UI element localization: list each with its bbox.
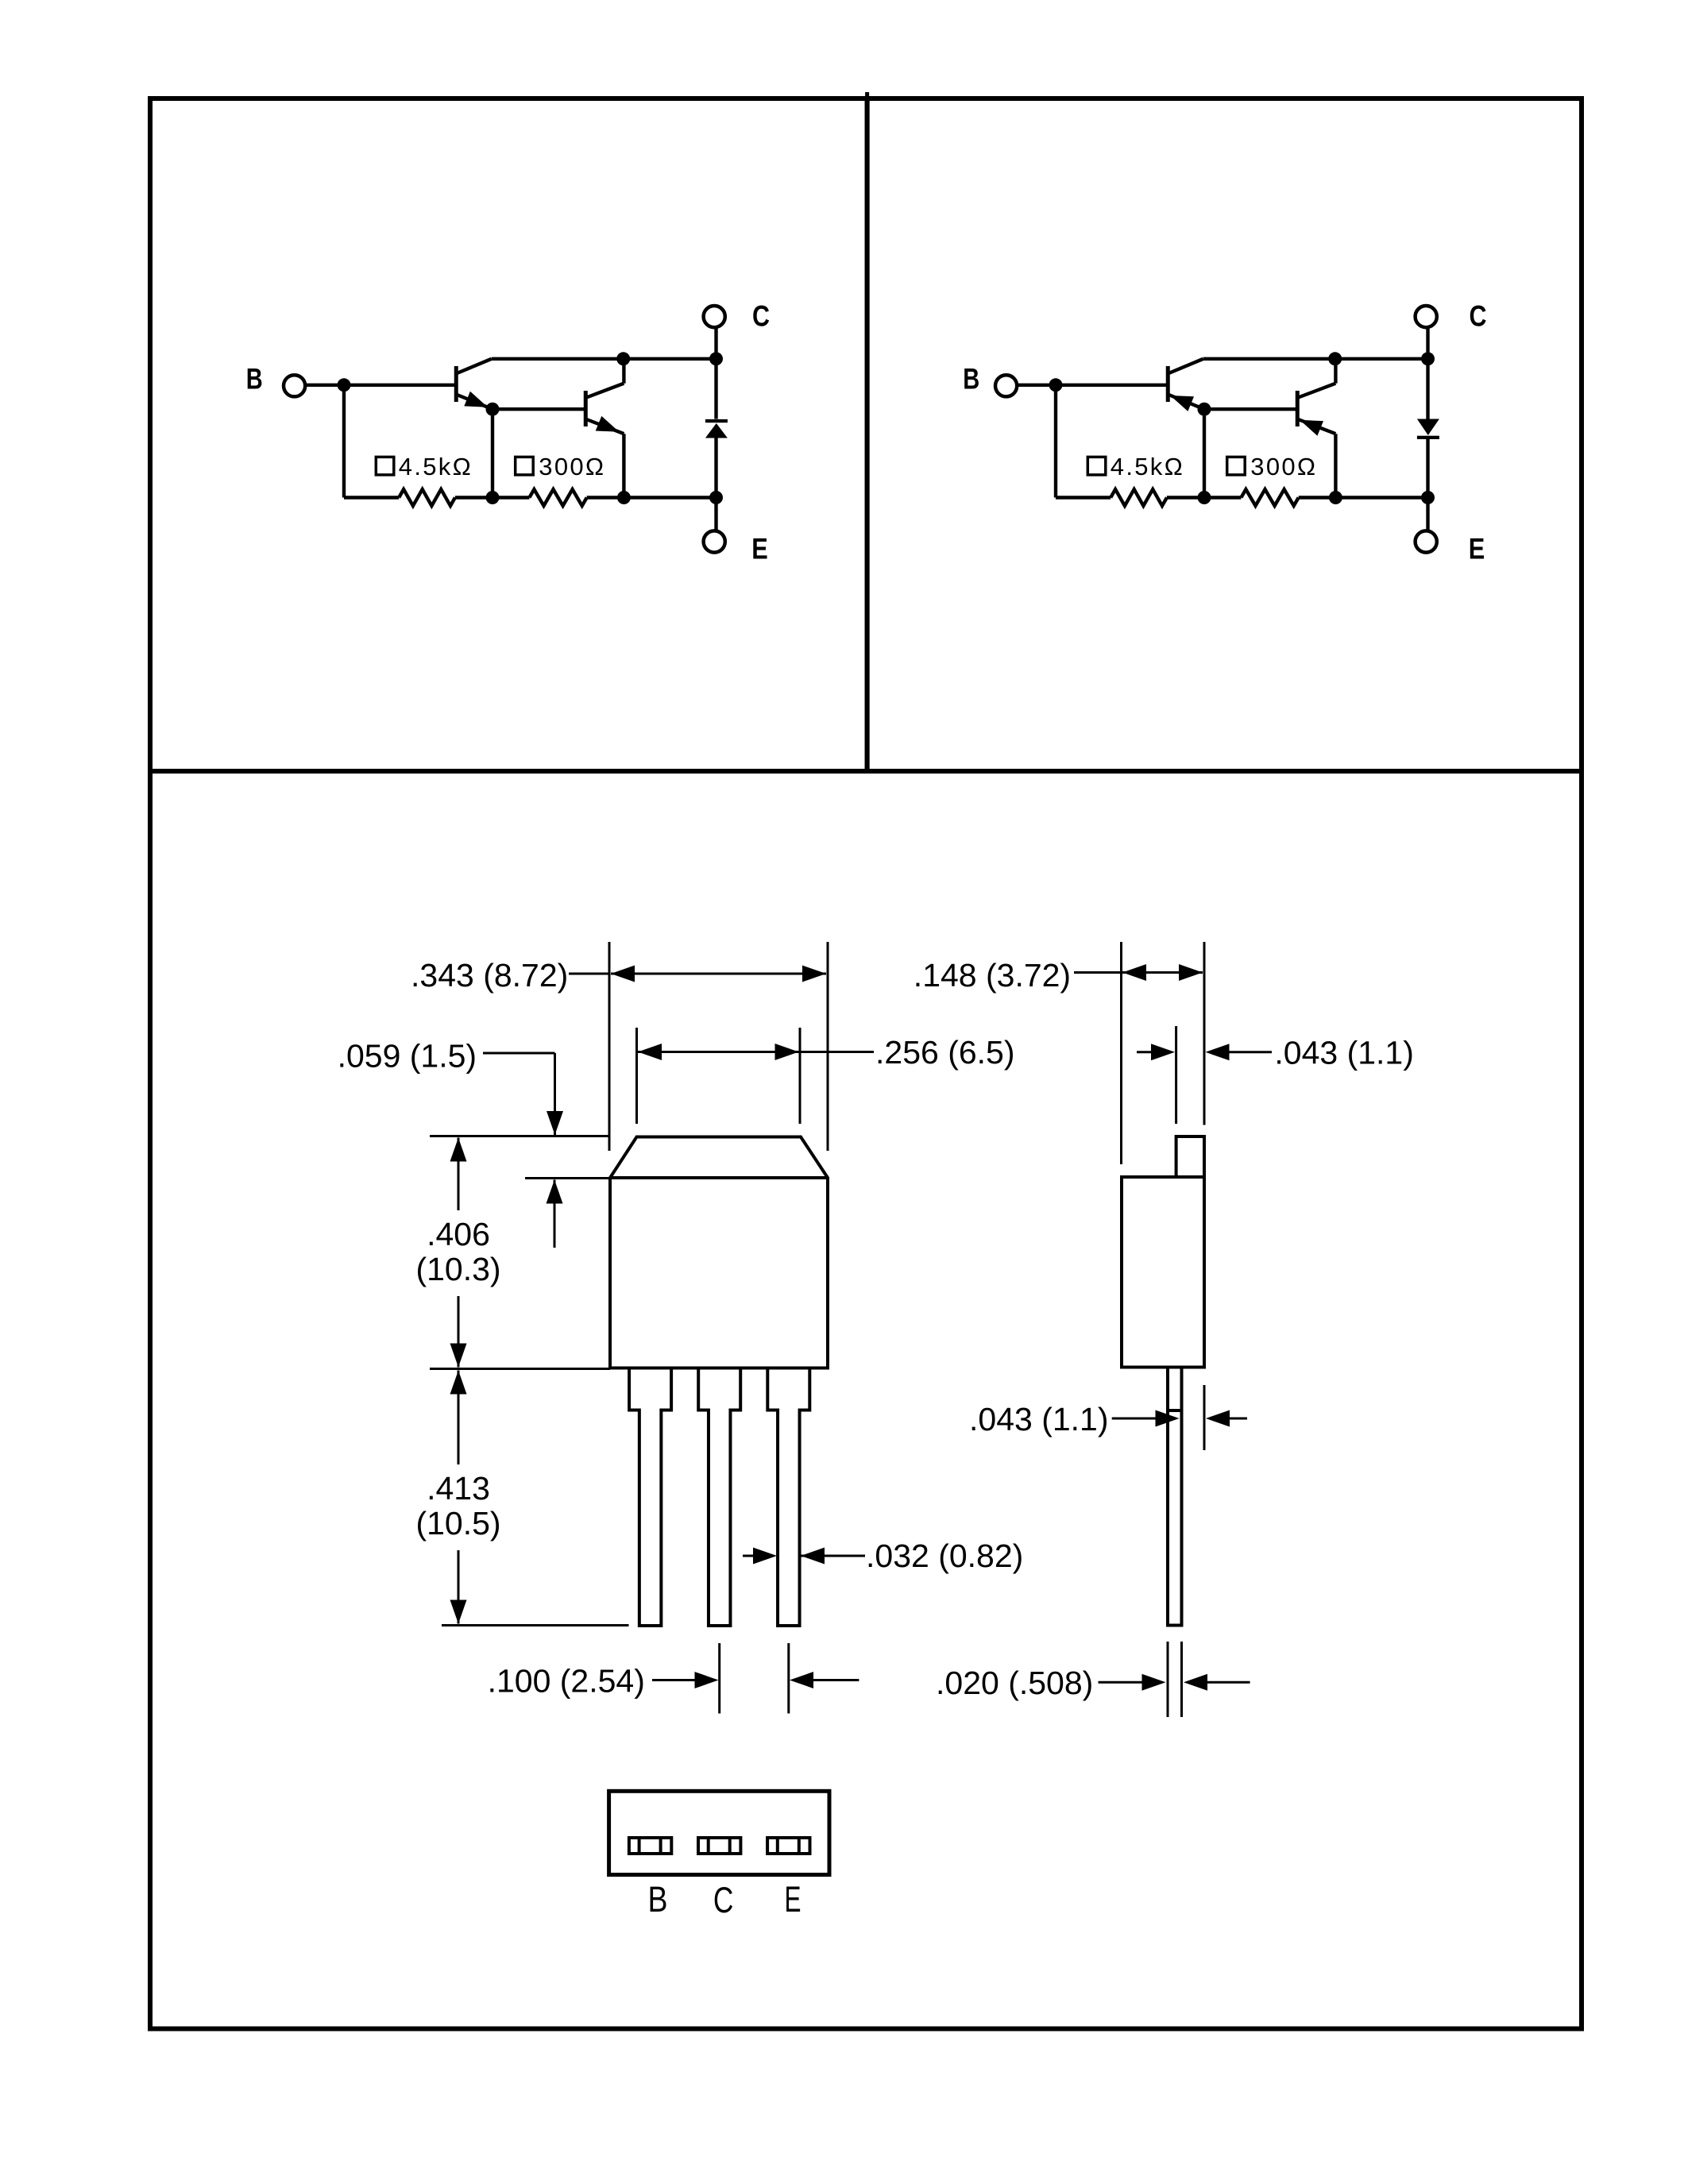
dimension .406 (10.3) body height — [415, 1138, 500, 1368]
dimension .100 (2.54) lead pitch — [488, 1663, 859, 1700]
wire to base of Q2 — [492, 407, 584, 411]
value label R1 4.5kOhm — [376, 457, 394, 475]
extension line body top left — [430, 1135, 610, 1137]
transistor Q1 — [456, 359, 492, 409]
extension line lead right — [1180, 1642, 1183, 1717]
junction node emitter of Q3 — [1198, 403, 1211, 416]
junction bottom rail - E line — [709, 491, 723, 504]
svg-text:C: C — [1470, 300, 1487, 333]
package lead 3 front view — [767, 1368, 809, 1626]
wire bottom rail segment — [1056, 496, 1111, 499]
wire B to base of Q3 — [1017, 384, 1166, 387]
svg-text:C: C — [713, 1880, 734, 1920]
value label R2 300Ohm — [516, 457, 534, 475]
junction collector of Q2 — [616, 352, 630, 365]
dimension .032 (0.82) lead width — [743, 1538, 1023, 1574]
extension line lead2 center — [718, 1643, 720, 1714]
dimension .413 (10.5) lead length — [415, 1371, 500, 1624]
resistor R1 4.5kΩ zigzag — [399, 489, 455, 506]
junction R3-R4 — [1198, 491, 1211, 504]
resistor R2 300Ω zigzag — [529, 489, 586, 506]
package front view body outline — [610, 1137, 828, 1368]
svg-text:.043 (1.1): .043 (1.1) — [969, 1401, 1109, 1437]
extension line shoulder left — [525, 1177, 610, 1179]
svg-text:E: E — [1469, 533, 1485, 565]
svg-text:C: C — [752, 300, 770, 333]
junction node emitter of Q1 — [486, 403, 500, 416]
junction R2-emitter — [617, 491, 631, 504]
svg-text:B: B — [648, 1879, 668, 1920]
wire diode to E terminal — [714, 438, 717, 531]
svg-text:300Ω: 300Ω — [1250, 453, 1317, 480]
resistor R3 4.5kΩ zigzag — [1111, 489, 1167, 506]
dimension .020 (.508) lead thickness — [936, 1665, 1250, 1701]
wire bottom rail segment — [344, 496, 399, 499]
extension line body right — [827, 942, 829, 1151]
wire bottom rail segment — [1299, 496, 1428, 499]
package bottom view pin slot 1 — [629, 1838, 671, 1854]
svg-text:4.5kΩ: 4.5kΩ — [399, 453, 473, 480]
wire node down to bottom rail — [491, 409, 494, 497]
dimension .043 (1.1) tab width — [1137, 1035, 1414, 1071]
extension line body bottom left — [430, 1368, 610, 1370]
wire B to base of Q1 — [305, 384, 454, 387]
value label R3 4.5kOhm — [1087, 457, 1106, 475]
package bottom view pin slot 2 — [698, 1838, 740, 1854]
svg-text:.020 (.508): .020 (.508) — [936, 1665, 1093, 1701]
wire collector rail of Q3 — [1203, 357, 1428, 361]
svg-text:.148 (3.72): .148 (3.72) — [914, 957, 1071, 994]
diode D1 — [705, 419, 728, 438]
resistor R4 300Ω zigzag — [1241, 489, 1298, 506]
svg-text:.256 (6.5): .256 (6.5) — [875, 1034, 1015, 1071]
package lead 2 front view — [698, 1368, 740, 1626]
extension line body left — [608, 942, 611, 1151]
node B terminal circle — [284, 375, 305, 396]
svg-text:E: E — [751, 533, 768, 565]
wire emitter of Q2 to bottom rail — [622, 434, 625, 497]
wire bottom rail segment — [455, 496, 530, 499]
svg-text:.032 (0.82): .032 (0.82) — [866, 1538, 1023, 1574]
dimension .148 (3.72) side body width — [914, 957, 1203, 994]
svg-text:B: B — [246, 363, 263, 396]
package bottom view pin slot 3 — [767, 1838, 809, 1854]
node C terminal circle — [704, 306, 725, 327]
node E terminal circle — [704, 531, 725, 552]
NPN Darlington schematic (left box) — [246, 300, 770, 565]
junction rail - C line — [1421, 352, 1435, 365]
wire diode to E terminal — [1426, 438, 1429, 531]
junction node B — [338, 378, 351, 392]
package side view body outline — [1122, 1177, 1204, 1368]
wire to base of Q4 — [1204, 407, 1296, 411]
wire collector of Q2 to rail — [622, 359, 625, 384]
transistor Q3 — [1168, 359, 1204, 411]
svg-text:.059 (1.5): .059 (1.5) — [338, 1038, 477, 1075]
svg-text:.100 (2.54): .100 (2.54) — [488, 1663, 645, 1700]
wire collector of Q4 to rail — [1334, 359, 1337, 384]
extension line side body left — [1120, 942, 1122, 1164]
extension line lead bottom — [442, 1624, 629, 1626]
extension line lead3 center — [787, 1643, 790, 1714]
wire node B down to bottom rail — [342, 385, 346, 498]
svg-text:(10.3): (10.3) — [415, 1251, 500, 1287]
svg-text:E: E — [785, 1879, 802, 1920]
wire bottom rail segment — [587, 496, 717, 499]
svg-text:(10.5): (10.5) — [415, 1505, 500, 1542]
extension line tab left — [1175, 1026, 1177, 1124]
wire emitter of Q4 to bottom rail — [1334, 434, 1337, 497]
extension line lead left — [1167, 1642, 1169, 1717]
transistor Q4 — [1297, 384, 1335, 436]
junction bottom rail - E line — [1421, 491, 1435, 504]
extension line side body right — [1203, 942, 1206, 1125]
diode D2 — [1417, 419, 1439, 440]
svg-text:4.5kΩ: 4.5kΩ — [1111, 453, 1184, 480]
junction rail - C line — [709, 352, 723, 365]
node B terminal circle — [995, 375, 1017, 396]
dimension .343 (8.72) body width — [411, 957, 826, 994]
wire node down to bottom rail — [1203, 409, 1206, 497]
extension line chamfer left — [635, 1028, 638, 1124]
package lead 1 front view — [629, 1368, 671, 1626]
dimension .043 (1.1) lead position — [969, 1401, 1247, 1437]
wire bottom rail segment — [1167, 496, 1242, 499]
package side view mounting tab — [1176, 1136, 1204, 1177]
junction node B — [1049, 378, 1063, 392]
PNP Darlington schematic (right box) — [963, 300, 1486, 565]
svg-text:.413: .413 — [427, 1470, 490, 1507]
node E terminal circle — [1416, 531, 1437, 552]
svg-text:.343 (8.72): .343 (8.72) — [411, 957, 568, 994]
extension line chamfer right — [799, 1028, 802, 1124]
svg-text:.043 (1.1): .043 (1.1) — [1274, 1035, 1414, 1071]
transistor Q2 — [585, 384, 624, 434]
node C terminal circle — [1416, 306, 1437, 327]
wire collector rail of Q1 — [492, 357, 717, 361]
dimension .059 (1.5) top chamfer height — [338, 1038, 563, 1248]
package bottom view outline — [609, 1791, 829, 1874]
dimension .256 (6.5) chamfer width — [638, 1034, 1015, 1071]
value label R4 300Ohm — [1227, 457, 1246, 475]
wire node B down to bottom rail — [1054, 385, 1057, 498]
junction collector of Q4 — [1328, 352, 1342, 365]
svg-text:300Ω: 300Ω — [539, 453, 605, 480]
svg-text:B: B — [963, 363, 979, 396]
junction R4-emitter — [1329, 491, 1342, 504]
junction R1-R2 — [486, 491, 500, 504]
extension line body right lower — [1203, 1385, 1206, 1450]
wire C down to diode D1 — [714, 327, 717, 419]
package side view lead — [1168, 1368, 1182, 1626]
svg-text:.406: .406 — [427, 1216, 490, 1252]
wire C down to diode D2 — [1426, 327, 1429, 419]
